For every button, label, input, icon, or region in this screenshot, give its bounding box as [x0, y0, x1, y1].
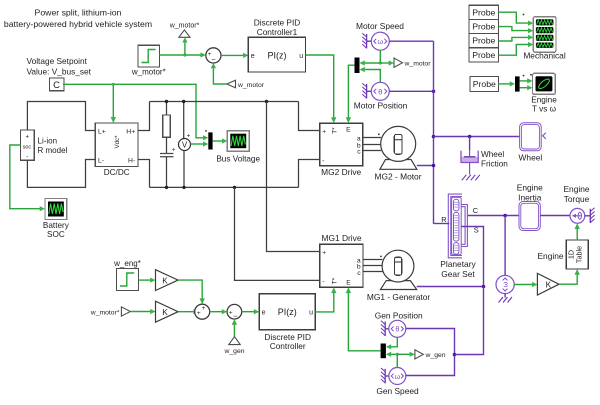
sensor Motor Speed	[356, 21, 404, 50]
svg-text:e: e	[251, 53, 255, 60]
svg-text:-: -	[322, 157, 324, 164]
battery Li-ion R model	[21, 130, 68, 161]
wire mux to MG1 E	[346, 287, 381, 351]
svg-text:battery-powered hybrid vehicle: battery-powered hybrid vehicle system	[4, 19, 152, 29]
svg-text:MG1 Drive: MG1 Drive	[321, 233, 361, 243]
svg-text:-: -	[322, 279, 324, 286]
wire C to Vdc* and bus voltage mux	[63, 83, 208, 141]
capacitor	[160, 147, 176, 189]
annotation title	[4, 8, 152, 30]
mux gen feedback	[381, 344, 386, 359]
svg-text:Li-ion: Li-ion	[38, 136, 58, 145]
from w_motor*	[90, 307, 156, 317]
MG1 Drive	[320, 233, 363, 287]
svg-text:Planetary: Planetary	[440, 259, 476, 269]
wire step to gain K1	[139, 278, 156, 283]
svg-text:w_gen: w_gen	[425, 352, 446, 359]
wire generator shaft	[417, 285, 486, 289]
svg-text:C: C	[473, 206, 479, 215]
probe 2	[469, 19, 498, 33]
svg-text:L+: L+	[98, 129, 106, 136]
svg-text:u: u	[309, 310, 313, 317]
svg-text:−: −	[211, 55, 215, 64]
svg-text:SOC: SOC	[47, 230, 65, 239]
svg-text:+: +	[202, 305, 206, 312]
svg-text:Mechanical: Mechanical	[523, 50, 566, 60]
svg-text:Controller: Controller	[270, 341, 306, 351]
svg-text:+: +	[229, 309, 233, 316]
svg-text:K: K	[162, 276, 168, 285]
svg-text:Probe: Probe	[472, 50, 495, 60]
wire bus to MG2 minus	[299, 160, 320, 188]
wire to wheel	[434, 135, 520, 139]
scope Mechanical	[523, 17, 566, 61]
svg-text:ω: ω	[501, 281, 510, 287]
probe 3	[469, 34, 498, 48]
probe 4	[469, 48, 498, 62]
bus top rail	[150, 101, 299, 103]
constant C (V_bus_set)	[49, 78, 64, 91]
svg-text:Battery: Battery	[43, 221, 70, 230]
svg-text:θ: θ	[395, 327, 399, 334]
MG2 three-phase wires	[363, 133, 382, 150]
wire mux to MG2 E	[346, 65, 355, 123]
svg-text:Gear Set: Gear Set	[441, 269, 475, 279]
wire bus branch to MG1 plus	[265, 100, 320, 252]
wire R port	[434, 223, 450, 225]
svg-text:w_motor*: w_motor*	[131, 67, 166, 76]
wire sum to PID1	[221, 53, 248, 58]
svg-text:a: a	[357, 135, 361, 142]
wire sum2 to PID2	[242, 309, 260, 314]
wire DC/DC H+ to top rail	[138, 102, 150, 131]
svg-text:Probe: Probe	[472, 22, 495, 32]
wheel friction damper	[461, 137, 508, 181]
svg-text:Engine: Engine	[517, 182, 543, 192]
wire battery soc to scope	[10, 145, 45, 211]
svg-text:c: c	[357, 149, 361, 156]
demux engine T vs w	[515, 76, 520, 91]
svg-text:Gen Speed: Gen Speed	[376, 386, 419, 396]
svg-text:Vdc*: Vdc*	[114, 135, 121, 149]
wire K to 1D table	[559, 269, 580, 284]
gain K2 (motor speed)	[156, 301, 179, 322]
svg-text:ω: ω	[377, 37, 383, 46]
wire C port to engine inertia	[468, 214, 519, 218]
svg-text:soc: soc	[23, 145, 32, 151]
wheel block	[519, 123, 546, 163]
svg-text:Controller1: Controller1	[257, 27, 298, 37]
wire PID2 u to MG1 T*	[315, 287, 336, 312]
svg-text:w_gen: w_gen	[223, 348, 244, 355]
svg-text:T vs ω: T vs ω	[532, 105, 557, 114]
svg-text:w_eng*: w_eng*	[113, 259, 141, 268]
svg-text:+: +	[322, 250, 326, 257]
wire motor speed purple to bus	[389, 40, 433, 42]
svg-text:Inertia: Inertia	[518, 192, 542, 202]
wire K2 to sum	[178, 309, 199, 314]
step w_motor*	[131, 45, 166, 76]
svg-text:+: +	[197, 310, 201, 317]
wires demux to scope	[520, 74, 533, 90]
svg-text:C: C	[53, 80, 60, 91]
wire S port down to generator shaft	[462, 227, 484, 287]
svg-text:Friction: Friction	[481, 160, 508, 169]
goto w_motor*	[169, 22, 200, 37]
resistor branch	[163, 100, 170, 154]
svg-text:w_motor: w_motor	[404, 60, 432, 67]
svg-text:L-: L-	[98, 158, 104, 165]
MG1 - Generator	[367, 250, 431, 302]
svg-text:K: K	[546, 280, 552, 289]
wire gen speed purple to junction	[406, 355, 455, 376]
scope Bus Voltage	[216, 131, 260, 164]
discrete PID controller1	[248, 18, 305, 73]
probe 5	[470, 76, 498, 91]
svg-text:e: e	[262, 310, 266, 317]
svg-text:H+: H+	[126, 129, 135, 136]
wire probe5 to demux	[499, 81, 516, 86]
probe 1	[469, 5, 498, 19]
engine inertia block	[517, 182, 543, 230]
svg-text:PI(z): PI(z)	[268, 50, 287, 60]
goto w_gen	[415, 350, 446, 359]
wire DC/DC H- to bottom rail	[138, 160, 150, 188]
wire V sensor to mux	[191, 141, 209, 146]
sensor engine speed	[496, 216, 514, 303]
svg-text:+: +	[187, 133, 191, 140]
bus bottom rail	[150, 186, 299, 188]
svg-text:Motor Position: Motor Position	[354, 100, 408, 110]
sensor Motor Position	[354, 82, 408, 110]
wire PID1 u to MG2 T*	[306, 55, 337, 123]
annotation voltage setpoint	[27, 56, 92, 77]
wire engine speed to gain K	[514, 282, 537, 287]
svg-text:T*: T*	[332, 127, 339, 134]
svg-text:Engine: Engine	[537, 251, 563, 261]
wire step to sum junction	[160, 37, 206, 57]
wire motor position purple to bus	[389, 90, 435, 94]
svg-text:MG2 - Motor: MG2 - Motor	[375, 171, 422, 181]
svg-text:R model: R model	[38, 146, 68, 155]
DC/DC converter	[95, 123, 138, 177]
wire gen position purple to junction	[406, 329, 455, 355]
goto w_motor	[394, 58, 431, 67]
from w_gen	[223, 319, 244, 355]
svg-text:K: K	[162, 308, 168, 317]
wire engine inertia to engine torque	[540, 215, 570, 217]
wire 1D table to engine torque	[575, 223, 580, 240]
sensor gen speed	[376, 368, 419, 396]
svg-text:E: E	[346, 279, 351, 286]
svg-text:Wheel: Wheel	[519, 152, 543, 162]
step w_eng*	[117, 269, 139, 291]
scope Battery SOC	[43, 199, 70, 240]
wires probes to mechanical scope	[499, 12, 534, 55]
svg-text:Discrete PID: Discrete PID	[254, 18, 301, 28]
mux motor feedback	[355, 58, 360, 74]
svg-text:Engine: Engine	[531, 96, 557, 105]
svg-text:w_motor*: w_motor*	[90, 309, 120, 316]
wire battery plus to DC/DC L+	[27, 102, 95, 131]
wire gen position green to mux	[386, 337, 397, 349]
svg-text:Probe: Probe	[472, 36, 495, 46]
svg-text:−: −	[233, 311, 237, 320]
voltage sensor V	[179, 100, 191, 189]
purple mechanical bus vertical	[432, 41, 436, 224]
svg-text:Motor Speed: Motor Speed	[356, 21, 404, 31]
gain K1 (engine speed ref)	[156, 270, 179, 291]
svg-text:c: c	[357, 270, 361, 277]
wire junction to generator shaft vertical	[453, 287, 484, 357]
svg-text:Gen Position: Gen Position	[375, 310, 423, 320]
svg-text:w_motor*: w_motor*	[169, 22, 200, 29]
svg-text:Power split, lithium-ion: Power split, lithium-ion	[35, 8, 122, 18]
MG2 Drive	[320, 123, 363, 177]
svg-text:MG2 Drive: MG2 Drive	[321, 167, 361, 177]
svg-text:Torque: Torque	[564, 194, 590, 204]
planetary gear set	[440, 194, 478, 279]
svg-text:MG1 - Generator: MG1 - Generator	[367, 292, 431, 302]
wire gen speed green to mux and goto	[386, 352, 415, 368]
svg-text:Voltage Setpoint: Voltage Setpoint	[27, 56, 88, 66]
gain K engine	[537, 273, 559, 295]
svg-text:Probe: Probe	[473, 79, 496, 89]
mux bus voltage	[208, 132, 212, 149]
engine torque source	[563, 184, 594, 223]
svg-text:+: +	[172, 147, 176, 154]
wire mux to scope	[213, 138, 228, 143]
wire motor position green to mux	[360, 67, 381, 82]
wire battery minus to DC/DC L-	[27, 160, 95, 188]
from w_motor	[211, 63, 265, 89]
svg-text:u: u	[299, 53, 303, 60]
svg-text:Wheel: Wheel	[481, 150, 504, 159]
wire K1 to sum	[178, 280, 205, 304]
svg-text:Engine: Engine	[563, 184, 589, 194]
svg-text:w_motor: w_motor	[237, 82, 265, 89]
svg-text:θ: θ	[378, 87, 382, 96]
svg-text:Bus Voltage: Bus Voltage	[216, 154, 260, 163]
svg-text:H-: H-	[128, 158, 135, 165]
wire MG2 motor shaft	[417, 165, 434, 167]
wire motor speed green to mux and goto	[360, 50, 395, 65]
svg-text:Probe: Probe	[472, 7, 495, 17]
discrete PID controller	[259, 294, 315, 351]
svg-text:T*: T*	[332, 277, 339, 284]
svg-text:+: +	[322, 128, 326, 135]
wire bus branch to MG1 minus	[233, 186, 320, 281]
svg-text:Value: V_bus_set: Value: V_bus_set	[27, 67, 92, 77]
sensor gen position	[375, 310, 423, 337]
svg-text:Table: Table	[575, 246, 584, 263]
svg-text:-: -	[26, 154, 28, 161]
MG2 - Motor	[375, 126, 422, 181]
svg-text:DC/DC: DC/DC	[104, 168, 130, 177]
svg-text:+: +	[25, 134, 29, 141]
MG1 three-phase wires	[363, 256, 383, 272]
sum (gen speed calc)	[195, 304, 210, 319]
engine 1D table block	[537, 240, 588, 269]
sum2 (gen speed error)	[227, 304, 242, 320]
svg-text:PI(z): PI(z)	[278, 307, 297, 317]
sum (motor speed error)	[206, 48, 221, 64]
scope Engine T vs w	[531, 73, 557, 113]
svg-text:E: E	[346, 126, 351, 133]
svg-text:V: V	[182, 141, 188, 150]
wire sum to sum2	[210, 309, 227, 314]
svg-text:ω: ω	[395, 374, 401, 381]
wire bus to MG2 plus	[299, 102, 320, 131]
